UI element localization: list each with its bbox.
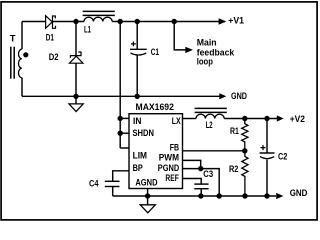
svg-text:LIM: LIM bbox=[133, 151, 147, 162]
svg-text:REF: REF bbox=[165, 173, 179, 184]
svg-text:R1: R1 bbox=[230, 126, 239, 137]
svg-text:LX: LX bbox=[172, 116, 181, 127]
svg-text:GND: GND bbox=[231, 91, 247, 102]
svg-text:loop: loop bbox=[197, 56, 213, 67]
svg-text:BP: BP bbox=[133, 163, 144, 174]
svg-text:C3: C3 bbox=[203, 169, 213, 180]
svg-text:+V2: +V2 bbox=[290, 114, 305, 125]
svg-text:T: T bbox=[10, 34, 16, 45]
svg-text:D2: D2 bbox=[49, 52, 59, 63]
svg-text:C2: C2 bbox=[278, 152, 287, 163]
svg-text:D1: D1 bbox=[46, 33, 55, 44]
svg-text:C4: C4 bbox=[89, 179, 99, 190]
svg-text:L1: L1 bbox=[84, 24, 91, 35]
svg-text:L2: L2 bbox=[206, 120, 213, 131]
svg-text:IN: IN bbox=[133, 116, 142, 127]
svg-text:C1: C1 bbox=[151, 47, 160, 58]
svg-text:AGND: AGND bbox=[135, 178, 157, 189]
svg-text:MAX1692: MAX1692 bbox=[136, 102, 174, 113]
svg-text:GND: GND bbox=[290, 188, 308, 199]
svg-text:R2: R2 bbox=[229, 164, 238, 175]
svg-text:SHDN: SHDN bbox=[133, 128, 155, 139]
svg-text:+V1: +V1 bbox=[228, 15, 244, 26]
